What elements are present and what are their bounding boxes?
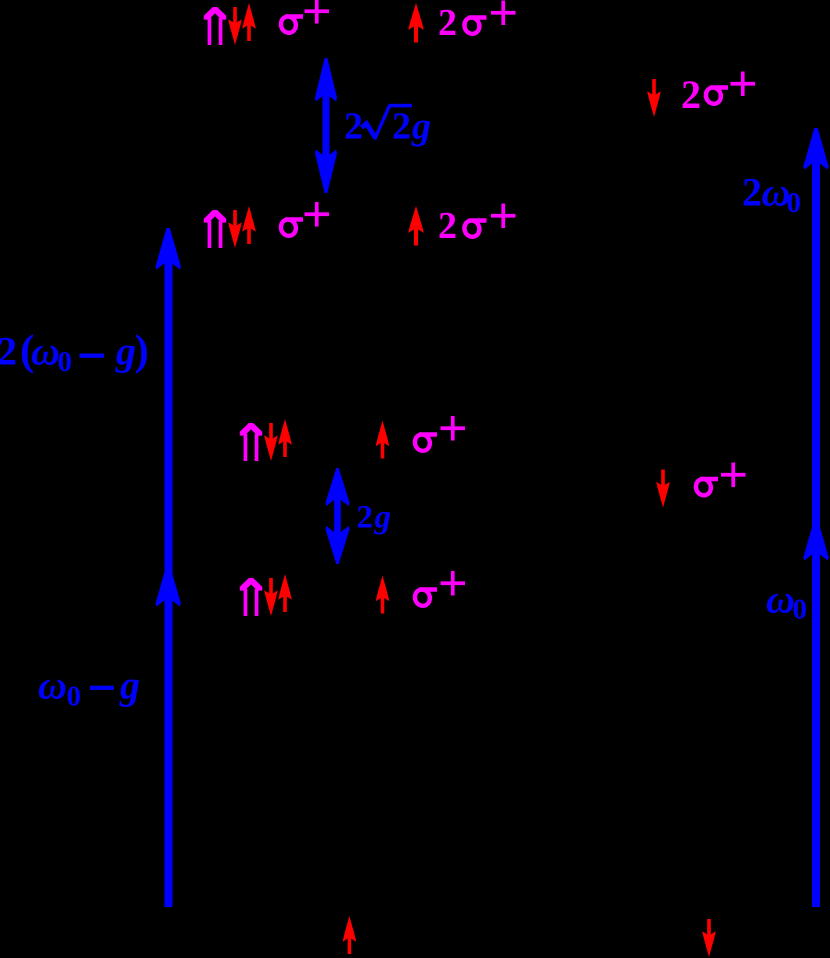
svg-text:): ) — [135, 328, 149, 375]
svg-text:0: 0 — [793, 594, 808, 626]
svg-text:g: g — [411, 105, 431, 147]
svg-text:2: 2 — [681, 72, 701, 117]
svg-text:g: g — [119, 663, 140, 708]
svg-text:2: 2 — [392, 105, 411, 147]
svg-text:ω: ω — [38, 663, 67, 708]
svg-text:0: 0 — [58, 346, 73, 378]
svg-text:2: 2 — [438, 205, 457, 247]
svg-text:g: g — [374, 500, 392, 536]
svg-text:2: 2 — [344, 105, 363, 147]
svg-text:0: 0 — [67, 681, 82, 713]
svg-text:2: 2 — [742, 169, 762, 214]
svg-text:2: 2 — [0, 329, 17, 374]
svg-text:2: 2 — [438, 2, 457, 44]
svg-text:g: g — [115, 329, 136, 374]
svg-text:ω: ω — [766, 576, 795, 621]
svg-text:0: 0 — [787, 187, 802, 219]
svg-text:ω: ω — [31, 329, 60, 374]
svg-text:2: 2 — [357, 500, 374, 536]
